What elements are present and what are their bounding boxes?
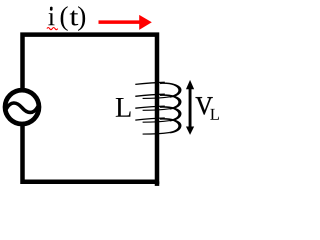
voltage arrow VL (double-headed) — [186, 80, 194, 135]
spellcheck squiggle — [47, 28, 58, 30]
current arrow (red) — [99, 15, 152, 30]
wire stub bottom-right — [155, 181, 160, 186]
sine symbol — [6, 103, 38, 112]
inductor L coil — [135, 82, 181, 134]
wire loop — [23, 35, 158, 182]
label i(t) — [48, 8, 54, 25]
AC voltage source — [5, 90, 39, 124]
label L — [116, 98, 131, 117]
label VL — [196, 97, 213, 114]
